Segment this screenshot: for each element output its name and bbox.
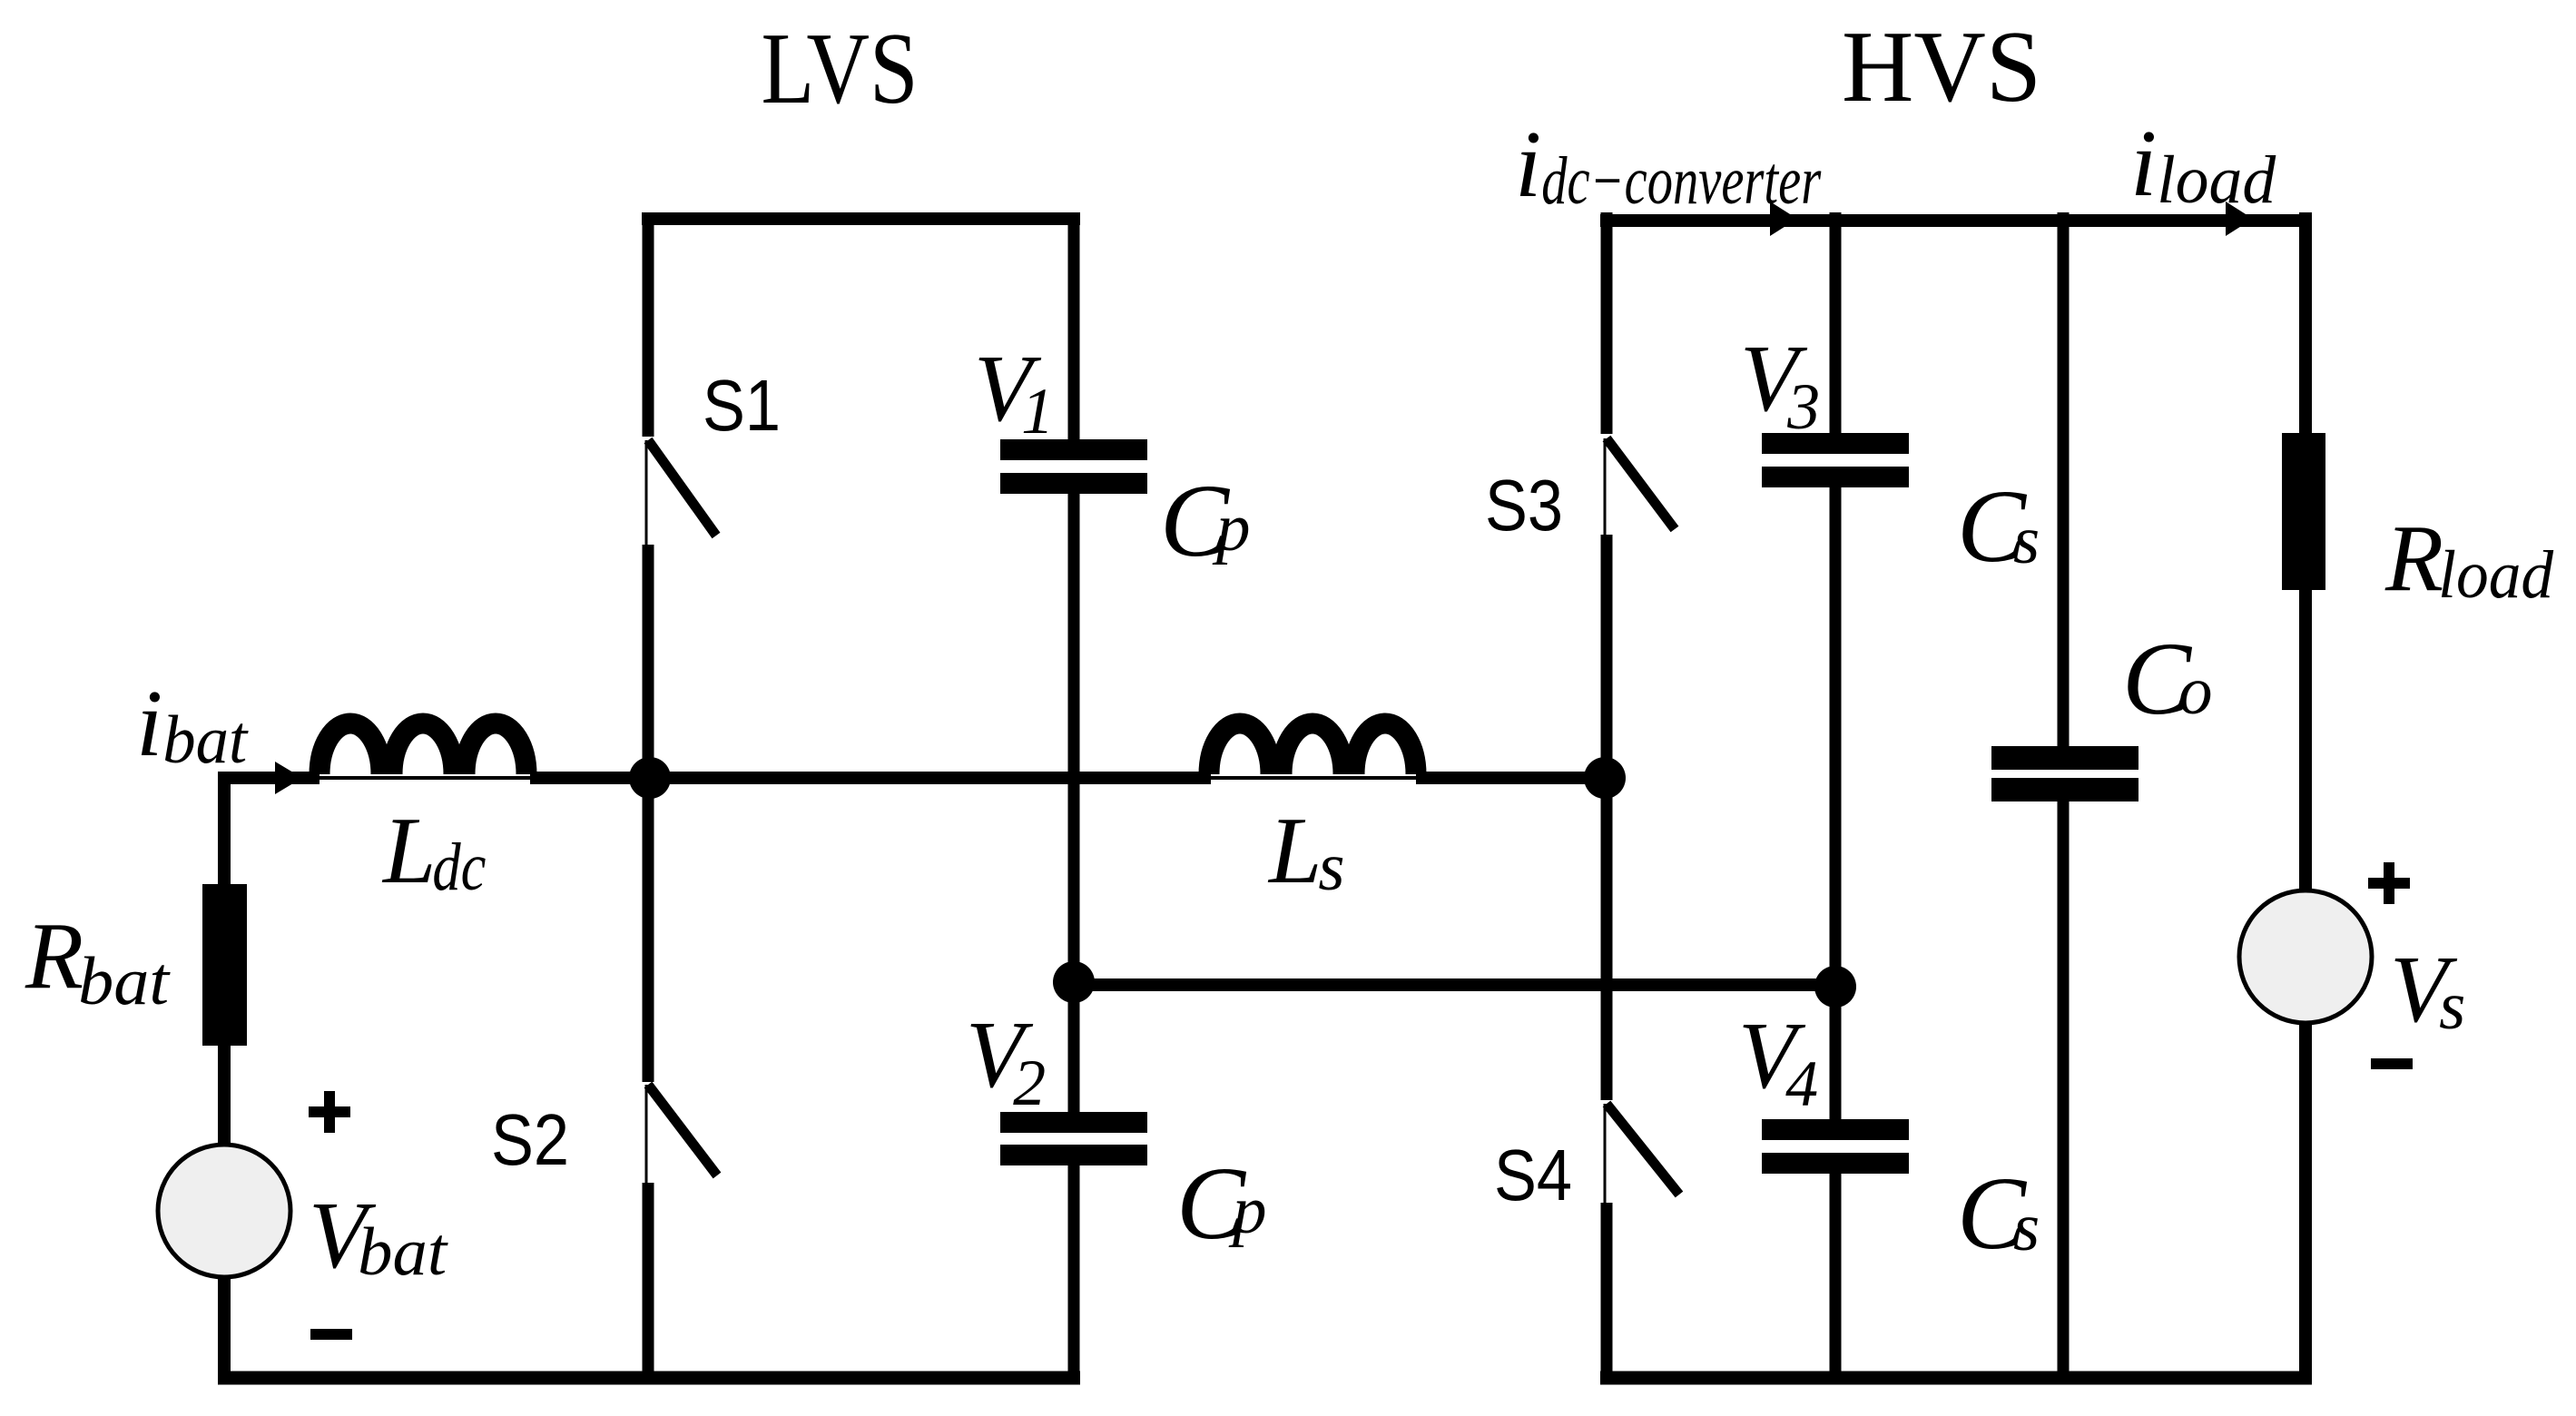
wire left bottom rail <box>218 1372 1080 1385</box>
wire LVS switch-leg middle segment <box>643 545 654 1082</box>
arrow i_load <box>2226 202 2253 236</box>
wire middle rail right segment <box>1416 772 1607 784</box>
wire load-leg upper segment <box>2299 212 2312 435</box>
wire thin under L_dc <box>316 776 536 780</box>
switch S4 blade <box>1607 1104 1679 1195</box>
wire lower link rail <box>1074 978 1835 991</box>
inductor L_s <box>1209 723 1416 774</box>
wire Rload to Vs <box>2299 590 2312 892</box>
wire Vbat to bottom rail <box>218 1277 231 1382</box>
wire right bottom rail <box>1600 1372 2312 1385</box>
wire HVS switch-leg lower segment <box>1601 1203 1613 1382</box>
node junction at HVS capacitor midpoint <box>1814 966 1856 1008</box>
wire HVS switch-leg middle segment <box>1601 535 1613 1100</box>
node junction at LVS switch midpoint <box>629 757 671 799</box>
wire LVS switch-leg lower segment <box>643 1183 654 1382</box>
wire LVS switch-leg upper segment <box>643 212 654 437</box>
wire middle rail left stub <box>218 772 320 784</box>
capacitor Cp lower (V2) plates <box>1000 1112 1147 1133</box>
wire Co leg lower segment <box>2058 801 2070 1382</box>
label plus of V_bat <box>309 1091 350 1133</box>
capacitor Co plates <box>1991 746 2138 770</box>
wire LVS capacitor-leg middle segment <box>1068 494 1080 1114</box>
switch S3 blade <box>1607 438 1675 529</box>
wire HVS capacitor-leg lower segment <box>1830 1174 1842 1382</box>
wire HVS switch-leg upper segment <box>1601 212 1613 434</box>
resistor R_load <box>2282 433 2325 590</box>
svg-text:HVS: HVS <box>1842 11 2041 123</box>
switch S2 blade <box>648 1085 717 1175</box>
wire Vs to bottom rail <box>2299 1023 2312 1382</box>
wire Rbat to Vbat <box>218 1046 231 1146</box>
switch S1 gap hairline <box>645 440 648 545</box>
wire HVS capacitor-leg middle segment <box>1830 487 1842 1121</box>
wire Co leg upper segment <box>2058 212 2070 748</box>
wire HVS top rail <box>1600 214 2312 227</box>
label minus of V_bat <box>310 1329 352 1340</box>
wire LVS capacitor-leg lower segment <box>1068 1165 1080 1382</box>
resistor R_bat <box>202 884 247 1046</box>
inductor L_dc <box>320 723 526 774</box>
switch S4 gap hairline <box>1604 1104 1607 1203</box>
wire thin under L_s <box>1205 776 1421 780</box>
svg-text:LVS: LVS <box>762 13 919 125</box>
arrow i_dc-converter <box>1770 202 1797 236</box>
switch S3 gap hairline <box>1604 438 1607 535</box>
wire middle rail centre segment <box>530 772 1211 784</box>
svg-text:S1: S1 <box>703 365 781 446</box>
wire HVS capacitor-leg upper segment <box>1830 212 1842 435</box>
wire battery branch top (corner to Rbat) <box>218 772 231 886</box>
voltage source V_s circle <box>2239 890 2372 1023</box>
arrow i_bat <box>275 762 302 794</box>
node junction at HVS switch midpoint <box>1584 757 1626 799</box>
label plus of V_s <box>2368 862 2410 904</box>
voltage source V_bat circle <box>158 1145 290 1277</box>
capacitor Cs lower (V4) plates <box>1762 1119 1909 1140</box>
label minus of V_s <box>2371 1058 2413 1069</box>
svg-text:S3: S3 <box>1485 465 1563 546</box>
wire LVS capacitor-leg upper segment <box>1068 212 1080 441</box>
switch S1 blade <box>648 440 716 536</box>
svg-text:S2: S2 <box>491 1099 569 1180</box>
switch S2 gap hairline <box>645 1085 648 1183</box>
node junction at LVS capacitor midpoint <box>1053 961 1095 1003</box>
capacitor Cp upper (V1) plates <box>1000 439 1147 460</box>
svg-text:S4: S4 <box>1494 1135 1572 1215</box>
wire LVS top rail <box>642 212 1080 225</box>
capacitor Cs upper (V3) plates <box>1762 433 1909 454</box>
